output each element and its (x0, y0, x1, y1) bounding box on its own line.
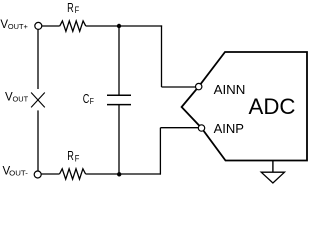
svg-text:OUT+: OUT+ (8, 22, 28, 31)
svg-text:ADC: ADC (249, 94, 296, 119)
svg-text:OUT: OUT (13, 94, 29, 103)
svg-text:F: F (75, 153, 80, 163)
svg-text:OUT-: OUT- (9, 168, 28, 177)
svg-text:F: F (75, 5, 80, 15)
svg-text:R: R (67, 1, 74, 15)
svg-text:C: C (83, 92, 90, 106)
svg-text:R: R (67, 149, 74, 163)
svg-text:AINP: AINP (214, 121, 244, 136)
svg-text:AINN: AINN (214, 82, 246, 97)
svg-text:F: F (90, 97, 94, 106)
